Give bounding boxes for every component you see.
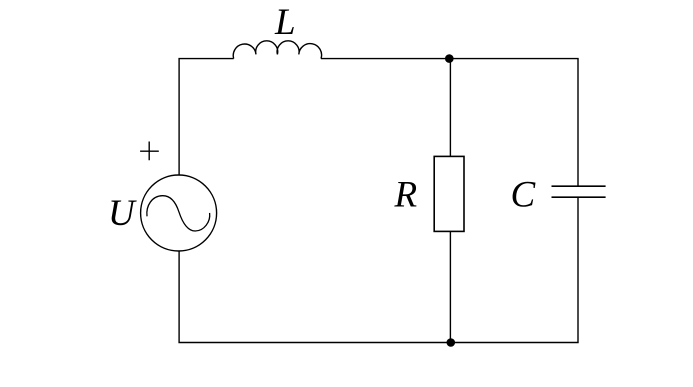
- wire resistor down to node B: [449, 231, 451, 342]
- svg-text:C: C: [511, 174, 537, 215]
- svg-text:L: L: [274, 2, 296, 43]
- plus sign polarity mark: [140, 142, 159, 161]
- junction node A: [445, 54, 454, 63]
- wire inductor to node A: [321, 58, 449, 60]
- svg-text:U: U: [108, 193, 137, 234]
- junction node B: [447, 338, 456, 347]
- wire capacitor bottom plate down and left to node B: [451, 197, 578, 342]
- wire node A down to resistor: [449, 59, 451, 157]
- wire node A right and down to capacitor top plate: [449, 59, 578, 187]
- inductor L: [233, 41, 321, 59]
- source U circle: [141, 175, 217, 251]
- svg-text:R: R: [394, 174, 418, 215]
- wire node B left and up to source - terminal: [179, 251, 451, 343]
- resistor R body: [434, 156, 464, 231]
- capacitor C plates: [552, 186, 606, 197]
- source U sine wave: [147, 196, 210, 231]
- wire from source + terminal up and right to inductor: [179, 59, 234, 176]
